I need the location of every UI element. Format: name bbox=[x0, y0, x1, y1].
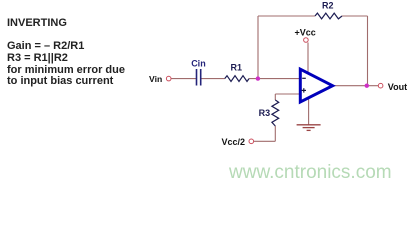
svg-text:Vcc/2: Vcc/2 bbox=[222, 137, 246, 147]
svg-text:Vout: Vout bbox=[388, 82, 407, 92]
svg-text:Vin: Vin bbox=[149, 74, 162, 84]
svg-text:+Vcc: +Vcc bbox=[295, 27, 316, 37]
svg-text:R1: R1 bbox=[231, 63, 243, 73]
svg-text:R3: R3 bbox=[259, 108, 271, 118]
svg-text:R2: R2 bbox=[322, 1, 334, 11]
svg-text:Cin: Cin bbox=[191, 59, 206, 69]
